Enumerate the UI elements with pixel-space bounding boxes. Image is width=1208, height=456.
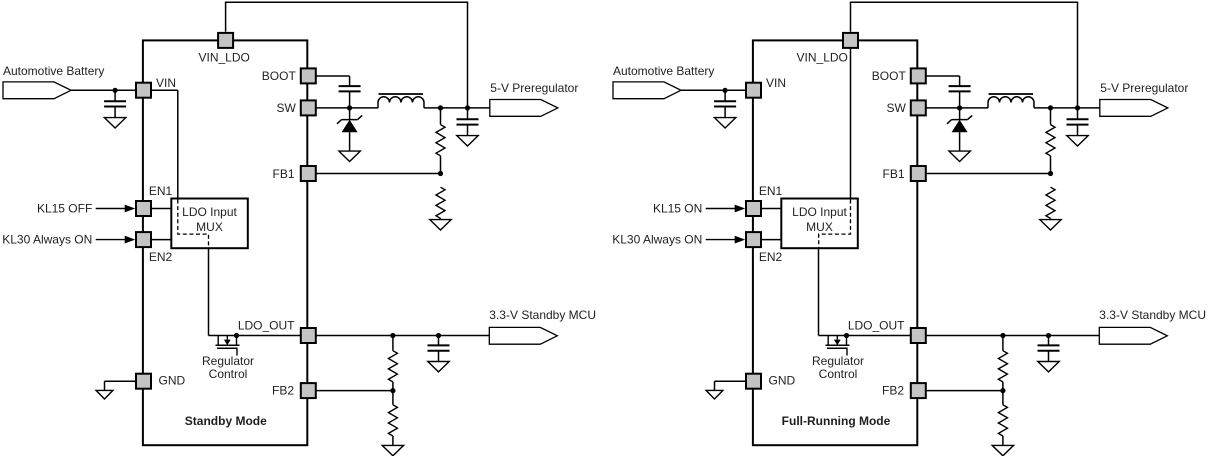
svg-text:Control: Control — [209, 367, 248, 381]
svg-text:EN1: EN1 — [149, 184, 173, 198]
svg-text:Regulator: Regulator — [202, 354, 254, 368]
svg-text:VIN_LDO: VIN_LDO — [797, 51, 848, 65]
svg-text:VIN: VIN — [156, 76, 176, 90]
svg-text:EN2: EN2 — [149, 250, 173, 264]
svg-text:3.3-V Standby MCU: 3.3-V Standby MCU — [489, 308, 596, 322]
svg-text:MUX: MUX — [196, 220, 223, 234]
svg-text:KL15 OFF: KL15 OFF — [37, 202, 92, 216]
svg-text:5-V Preregulator: 5-V Preregulator — [490, 81, 578, 95]
svg-text:VIN_LDO: VIN_LDO — [199, 51, 250, 65]
svg-text:LDO Input: LDO Input — [182, 205, 237, 219]
svg-text:FB1: FB1 — [272, 167, 294, 181]
svg-text:LDO_OUT: LDO_OUT — [238, 318, 295, 332]
svg-text:KL15 ON: KL15 ON — [653, 202, 702, 216]
svg-text:Standby Mode: Standby Mode — [185, 414, 267, 428]
svg-text:GND: GND — [159, 374, 186, 388]
svg-text:FB2: FB2 — [272, 383, 294, 397]
svg-text:BOOT: BOOT — [262, 69, 297, 83]
svg-text:Automotive Battery: Automotive Battery — [3, 64, 104, 78]
svg-text:KL30 Always ON: KL30 Always ON — [2, 233, 92, 247]
svg-text:Full-Running Mode: Full-Running Mode — [782, 414, 891, 428]
svg-text:SW: SW — [276, 101, 296, 115]
